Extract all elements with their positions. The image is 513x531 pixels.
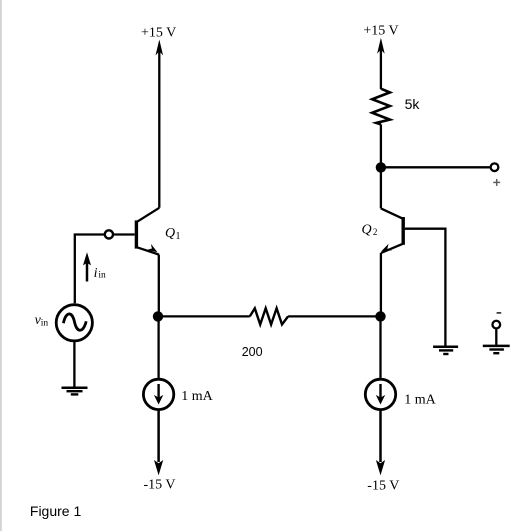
ground vin <box>62 388 88 395</box>
svg-text:-15 V: -15 V <box>144 478 176 493</box>
svg-text:Q: Q <box>362 222 372 237</box>
wire I2 to -15 V <box>379 410 382 462</box>
ground Q2 base <box>433 347 458 354</box>
current arrow i_in <box>83 252 106 281</box>
wire node to resistor <box>158 315 250 317</box>
wire input left <box>75 235 105 304</box>
node A (Q1 emitter) <box>153 311 163 321</box>
transistor Q1 <box>136 208 180 255</box>
svg-text:1 mA: 1 mA <box>404 392 436 407</box>
svg-text:-15 V: -15 V <box>367 478 399 493</box>
supply +15 V right <box>363 23 398 89</box>
node B dot <box>375 311 385 321</box>
svg-text:5k: 5k <box>405 96 421 112</box>
svg-text:+15 V: +15 V <box>363 23 398 38</box>
svg-text:in: in <box>41 319 49 329</box>
output - terminal <box>492 313 501 346</box>
wire Q2 emitter to node <box>380 253 382 317</box>
base terminal circle <box>105 230 113 238</box>
wire node to current source I2 <box>379 316 381 378</box>
source vin <box>35 305 93 341</box>
svg-text:in: in <box>98 271 106 281</box>
wire node to + terminal <box>381 166 490 168</box>
transistor Q2 <box>362 208 404 253</box>
wire Q2 base to ground <box>405 229 446 346</box>
wire 5k to node <box>380 124 382 167</box>
svg-text:1 mA: 1 mA <box>181 389 213 404</box>
current source I2 1 mA <box>365 379 436 409</box>
wire base <box>113 233 135 235</box>
svg-text:Figure 1: Figure 1 <box>30 503 82 519</box>
ground output <box>483 346 510 353</box>
resistor 5k <box>372 89 420 125</box>
svg-text:+15 V: +15 V <box>141 26 176 41</box>
svg-text:Q: Q <box>165 226 175 241</box>
wire node to current source I1 <box>157 316 159 378</box>
wire resistor to node B <box>288 315 380 317</box>
supply +15 V left <box>141 26 176 208</box>
svg-text:1: 1 <box>176 231 181 242</box>
wire node to Q2 collector <box>380 167 382 208</box>
svg-text:2: 2 <box>373 227 378 237</box>
wire vin to ground <box>73 342 75 387</box>
current source I1 1 mA <box>143 379 213 409</box>
svg-text:200: 200 <box>242 345 263 359</box>
node B (collector Q2 / output) <box>376 162 386 172</box>
svg-text:i: i <box>94 266 98 281</box>
wire I1 to -15 V <box>157 410 160 462</box>
resistor 200 <box>242 308 288 359</box>
output + terminal <box>491 163 501 186</box>
wire emitter Q1 to node <box>158 255 160 317</box>
